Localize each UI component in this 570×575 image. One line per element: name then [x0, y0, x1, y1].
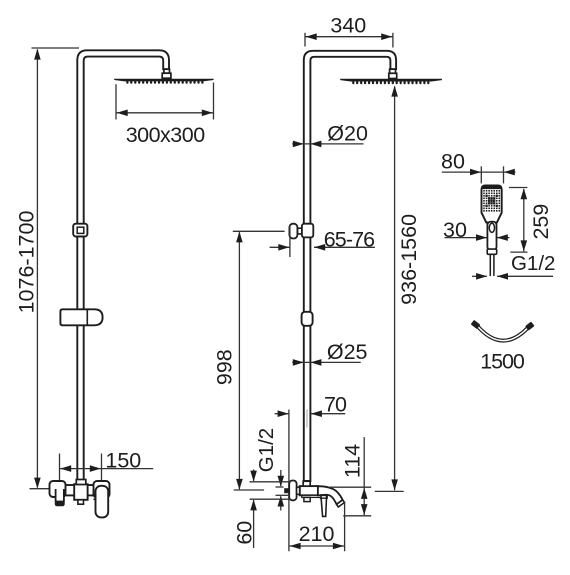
nut on head connector (left)	[162, 73, 171, 78]
slider bracket on riser	[73, 224, 87, 237]
svg-text:1076-1700: 1076-1700	[14, 211, 38, 314]
svg-text:150: 150	[105, 448, 141, 472]
collar on head connector (left)	[164, 69, 170, 73]
shower head blade with spray teeth (left)	[114, 79, 213, 82]
wire: extension line arm end (340 right)	[392, 33, 394, 48]
mixer tap assembly (left figure)	[50, 480, 110, 518]
hand shower spray face dots	[483, 190, 500, 212]
shower hose arc	[477, 325, 530, 341]
dimension 259 vertical line	[523, 189, 525, 251]
handle bottom collar	[487, 249, 497, 254]
dimension 1076-1700 vertical line	[36, 50, 38, 488]
hang hole in handle	[489, 223, 494, 232]
dimension 936-1560 vertical line	[394, 86, 396, 490]
dimension 70 leader	[275, 413, 289, 415]
middle figure: shower column side view	[212, 13, 442, 551]
dimension 65-76 leader	[270, 246, 290, 248]
svg-text:Ø25: Ø25	[327, 340, 368, 364]
pipe: riser and arm (middle)	[304, 51, 396, 481]
wire: top reference line (left figure)	[32, 47, 80, 49]
dimension Ø20 leader	[292, 143, 363, 145]
dimension 998 vertical line	[238, 232, 240, 489]
dimension 210 line	[289, 545, 345, 547]
wire: bottom reference line for 259	[510, 251, 527, 253]
svg-text:1500: 1500	[480, 350, 525, 374]
hose end fitting right	[525, 322, 534, 331]
dimension 300x300 line	[116, 112, 214, 114]
hand shower neck	[487, 223, 496, 227]
wire: extension line pipe (340 left)	[304, 33, 306, 47]
svg-text:300x300: 300x300	[126, 123, 206, 147]
collar on head connector (middle)	[390, 69, 396, 73]
wire: extension line left end of head	[115, 84, 117, 119]
dimension 150 line	[60, 468, 154, 470]
hose stub below handle	[489, 254, 491, 276]
right figure: hand shower	[441, 150, 555, 374]
wire: extension line right end of head	[213, 83, 215, 120]
hand shower handle	[487, 222, 496, 251]
dimension 60 arrows	[253, 470, 255, 481]
wire: bottom reference line for 936-1560	[375, 490, 404, 492]
wire: extension line left inlet (150)	[59, 454, 61, 483]
shower head blade with spray teeth (middle)	[340, 79, 442, 82]
wire: bottom reference line for 998	[234, 489, 264, 491]
svg-text:936-1560: 936-1560	[397, 214, 421, 305]
svg-text:259: 259	[529, 204, 553, 240]
pipe: shower column riser and arm (left)	[77, 50, 169, 480]
dimension G1/2 arrows	[280, 470, 282, 486]
svg-text:G1/2: G1/2	[511, 252, 555, 275]
wire: wall face extension line at bracket	[289, 226, 291, 258]
dimension 30 leader	[445, 237, 487, 239]
wire: top reference line for 998	[233, 230, 285, 232]
wall-mount bath mixer side view (middle figure)	[284, 481, 344, 517]
svg-text:70: 70	[324, 393, 347, 417]
svg-text:340: 340	[330, 13, 366, 37]
hose end fitting left	[471, 320, 481, 329]
dimension G1/2 (middle) reference lines	[276, 486, 284, 488]
svg-text:114: 114	[341, 444, 365, 478]
wall bracket on riser	[297, 228, 304, 234]
wire: extension lines for 80	[480, 166, 482, 183]
left figure: shower column front view	[14, 48, 213, 517]
dimension 340 line	[305, 36, 393, 38]
svg-text:80: 80	[441, 150, 465, 174]
wire: top reference line for 259	[509, 187, 528, 189]
svg-text:998: 998	[212, 349, 236, 385]
dimension 60 reference lines	[250, 481, 291, 483]
wire: wall face extension line (lower)	[288, 410, 290, 552]
svg-text:G1/2: G1/2	[255, 428, 278, 472]
wire: bottom reference line (left figure mixer centre)	[30, 488, 54, 490]
wire: extension line spout outlet (210 right)	[344, 502, 346, 552]
hand shower head	[482, 186, 502, 223]
svg-text:210: 210	[299, 522, 335, 546]
dimension G1/2 leader (hand shower)	[472, 275, 487, 277]
dimension Ø25 leader	[292, 361, 361, 363]
wire: extension line right inlet (150)	[101, 454, 103, 483]
svg-text:60: 60	[232, 521, 256, 545]
soap dish on riser	[60, 309, 102, 325]
dimension 114 reference lines	[330, 486, 371, 488]
dimension 80 line	[442, 171, 516, 173]
svg-text:65-76: 65-76	[324, 227, 375, 251]
wire: faint seam line inside riser	[306, 410, 308, 428]
pipe union connector on riser	[302, 312, 313, 326]
svg-text:30: 30	[443, 218, 467, 242]
svg-text:Ø20: Ø20	[327, 122, 368, 146]
nut on head connector (middle)	[389, 73, 397, 78]
dimension 114 vertical line	[363, 437, 365, 515]
